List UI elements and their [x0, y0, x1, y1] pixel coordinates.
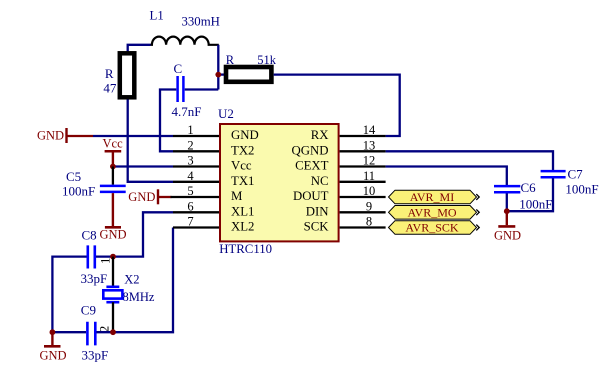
pin 11 number — [363, 169, 375, 183]
wire C9 left — [52, 331, 86, 333]
capacitor C7 label — [568, 167, 584, 182]
svg-text:11: 11 — [363, 169, 375, 183]
svg-text:GND: GND — [100, 228, 127, 242]
svg-text:AVR_MI: AVR_MI — [410, 190, 454, 204]
svg-text:DOUT: DOUT — [293, 189, 329, 203]
svg-text:XL2: XL2 — [231, 220, 254, 234]
svg-text:L1: L1 — [150, 9, 164, 23]
pin 7 stub — [173, 226, 219, 228]
svg-text:1: 1 — [97, 258, 112, 265]
pin 6 name XL1 — [231, 205, 254, 219]
pin 4 stub — [173, 181, 219, 183]
svg-text:2: 2 — [187, 138, 193, 152]
svg-text:U2: U2 — [218, 106, 234, 121]
wire C left to pin 2 TX2 — [160, 90, 176, 152]
wire L1 right down to junction — [217, 45, 219, 90]
wire Vcc junction to pin 3 — [113, 165, 173, 167]
pin 12 name CEXT — [295, 159, 329, 173]
wire C8 right to crystal node — [96, 255, 113, 257]
crystal X2 label — [124, 273, 139, 287]
wire C8 left — [52, 257, 86, 333]
pin 9 stub — [340, 211, 386, 213]
capacitor C6 label — [521, 180, 537, 195]
svg-text:SCK: SCK — [304, 220, 330, 234]
svg-text:C7: C7 — [568, 167, 584, 182]
svg-text:330mH: 330mH — [182, 15, 220, 29]
resistor R2 body (51k) — [226, 67, 271, 82]
resistor R1 label R — [105, 66, 114, 81]
svg-text:C5: C5 — [66, 169, 81, 184]
svg-text:7: 7 — [187, 215, 193, 229]
inductor L1 label — [150, 9, 164, 23]
wire pin 7 XL2 to crystal bottom — [113, 228, 173, 333]
pin 4 number — [187, 169, 194, 183]
resistor R2 value 51k — [257, 53, 277, 67]
net flag AVR_SCK — [389, 221, 480, 235]
svg-text:8: 8 — [366, 215, 372, 229]
svg-text:C6: C6 — [521, 180, 537, 195]
IC U2 part number HTRC110 — [219, 242, 272, 256]
capacitor C value 4.7nF — [172, 104, 202, 119]
wire junction to R51k left lead — [218, 73, 225, 75]
pin 13 stub — [340, 150, 386, 152]
pin 13 number — [363, 138, 376, 152]
pin 5 stub — [171, 196, 220, 198]
capacitor C label — [174, 61, 183, 76]
crystal X2 value 8MHz — [123, 290, 155, 304]
pin 5 number — [187, 184, 193, 198]
svg-text:33pF: 33pF — [81, 271, 108, 286]
svg-text:13: 13 — [363, 138, 376, 152]
capacitor C8 label — [82, 228, 97, 243]
svg-text:HTRC110: HTRC110 — [219, 242, 272, 256]
svg-text:8MHz: 8MHz — [123, 290, 155, 304]
inductor L1 — [150, 37, 219, 45]
crystal X2 bottom lead — [112, 302, 114, 332]
power port GND at pin 1 — [37, 128, 93, 143]
resistor R2 label R — [226, 53, 235, 67]
capacitor C9 label — [81, 303, 96, 318]
svg-text:GND: GND — [231, 128, 259, 142]
pin 6 stub — [173, 211, 219, 213]
power port Vcc — [103, 137, 124, 167]
wire pin 6 XL1 to crystal top — [113, 212, 173, 256]
capacitor C8 plates — [88, 245, 95, 268]
pin 9 name DIN — [306, 205, 329, 219]
svg-text:4: 4 — [187, 169, 194, 183]
pin 2 name TX2 — [231, 144, 254, 158]
wire pin 13 QGND to C7 — [386, 151, 553, 170]
pin 12 stub — [340, 165, 386, 167]
svg-text:14: 14 — [363, 123, 376, 137]
pin 2 stub — [173, 150, 219, 152]
wire C6 bottom to GND node — [506, 193, 508, 211]
node C6 GND junction (red dot) — [504, 208, 510, 214]
pin 8 number — [366, 215, 372, 229]
pin 14 stub — [340, 135, 386, 137]
svg-text:47: 47 — [103, 80, 117, 95]
svg-text:GND: GND — [40, 349, 67, 363]
pin 3 number — [187, 154, 193, 168]
svg-text:XL1: XL1 — [231, 205, 254, 219]
svg-text:RX: RX — [311, 128, 330, 142]
svg-text:DIN: DIN — [306, 205, 329, 219]
svg-text:R: R — [105, 66, 114, 81]
pin 11 stub — [340, 181, 386, 183]
pin 11 name NC — [311, 174, 329, 188]
svg-text:10: 10 — [363, 184, 376, 198]
svg-text:100nF: 100nF — [62, 183, 95, 198]
svg-text:M: M — [231, 189, 242, 203]
svg-text:Vcc: Vcc — [103, 137, 124, 151]
wire GND to pin 1 — [93, 135, 173, 137]
crystal X2 top lead — [112, 257, 114, 287]
pin 14 number — [363, 123, 376, 137]
pin 2 number — [187, 138, 193, 152]
crystal X2 pin number 1 (rotated) — [97, 258, 112, 265]
svg-text:6: 6 — [187, 199, 193, 213]
capacitor C9 plates — [87, 322, 95, 346]
node crystal top junction (red dot) — [110, 254, 116, 260]
svg-text:4.7nF: 4.7nF — [172, 104, 202, 119]
svg-text:C: C — [174, 61, 183, 76]
svg-text:3: 3 — [187, 154, 193, 168]
wire C right to junction column — [185, 88, 219, 90]
svg-text:X2: X2 — [124, 273, 139, 287]
wire C9 right to crystal node — [97, 331, 114, 333]
wire L1 left to R47 top — [128, 45, 151, 52]
crystal X2 pin number 2 (rotated) — [96, 326, 111, 333]
IC U2 body — [220, 124, 339, 241]
capacitor C6 plates — [494, 186, 520, 192]
svg-text:NC: NC — [311, 174, 329, 188]
node Vcc junction (red dot) — [110, 164, 116, 170]
capacitor C6 value 100nF — [519, 196, 552, 211]
svg-text:33pF: 33pF — [82, 348, 109, 363]
svg-text:5: 5 — [187, 184, 193, 198]
svg-text:9: 9 — [366, 199, 372, 213]
pin 1 stub — [173, 135, 219, 137]
node crystal bottom junction (red dot) — [110, 329, 116, 335]
svg-text:GND: GND — [494, 229, 521, 243]
capacitor C7 plates — [541, 171, 566, 177]
svg-text:GND: GND — [37, 129, 64, 143]
pin 1 name GND — [231, 128, 259, 142]
capacitor C5 label — [66, 169, 81, 184]
capacitor C5 value 100nF — [62, 183, 95, 198]
resistor R1 value 47 — [103, 80, 117, 95]
svg-text:TX2: TX2 — [231, 144, 254, 158]
pin 8 name SCK — [304, 220, 330, 234]
pin 9 number — [366, 199, 372, 213]
svg-text:TX1: TX1 — [231, 174, 254, 188]
power port GND bottom left — [40, 332, 67, 362]
power port GND right — [494, 211, 521, 242]
pin 7 number — [187, 215, 193, 229]
svg-text:QGND: QGND — [292, 144, 329, 158]
inductor L1 value 330mH — [182, 15, 220, 29]
pin 3 name Vcc — [231, 159, 252, 173]
capacitor C9 value 33pF — [82, 348, 109, 363]
node junction antenna (red dot) — [215, 72, 221, 78]
svg-text:12: 12 — [363, 154, 376, 168]
svg-text:CEXT: CEXT — [295, 159, 329, 173]
pin 1 number — [187, 123, 193, 137]
pin 7 name XL2 — [231, 220, 254, 234]
pin 13 name QGND — [292, 144, 329, 158]
wire R51k right to RX pin 14 — [274, 75, 400, 136]
net flag AVR_MI — [389, 190, 480, 204]
svg-text:100nF: 100nF — [519, 196, 552, 211]
pin 10 number — [363, 184, 376, 198]
svg-text:AVR_SCK: AVR_SCK — [405, 221, 458, 235]
pin 12 number — [363, 154, 376, 168]
crystal X2 symbol — [103, 287, 122, 302]
IC U2 designator — [218, 106, 234, 121]
power port GND at pin 5 — [128, 189, 171, 204]
svg-text:Vcc: Vcc — [231, 159, 252, 173]
pin 14 name RX — [311, 128, 330, 142]
capacitor C7 value 100nF — [565, 182, 598, 197]
svg-text:AVR_MO: AVR_MO — [407, 206, 456, 220]
wire R47 bottom to pin 4 TX1 — [128, 100, 173, 182]
svg-text:GND: GND — [128, 190, 155, 204]
svg-text:C8: C8 — [82, 228, 97, 243]
power port GND below C5 — [100, 193, 127, 242]
pin 10 name DOUT — [293, 189, 329, 203]
node C9 left junction (red dot) — [50, 329, 56, 335]
pin 4 name TX1 — [231, 174, 254, 188]
capacitor C5 plates — [100, 186, 126, 192]
net flag AVR_MO — [389, 206, 480, 220]
capacitor C8 value 33pF — [81, 271, 108, 286]
svg-text:C9: C9 — [81, 303, 96, 318]
resistor R1 body (47) — [120, 53, 135, 97]
capacitor C5 top lead — [112, 167, 114, 185]
capacitor C plates — [178, 76, 184, 102]
pin 10 stub — [340, 196, 386, 198]
svg-text:1: 1 — [187, 123, 193, 137]
wire C7 bottom to GND node — [507, 178, 553, 211]
pin 5 name M — [231, 189, 242, 203]
pin 6 number — [187, 199, 193, 213]
svg-text:100nF: 100nF — [565, 182, 598, 197]
wire pin 12 CEXT to C6 — [386, 167, 507, 186]
pin 3 stub — [173, 165, 219, 167]
pin 8 stub — [340, 226, 386, 228]
